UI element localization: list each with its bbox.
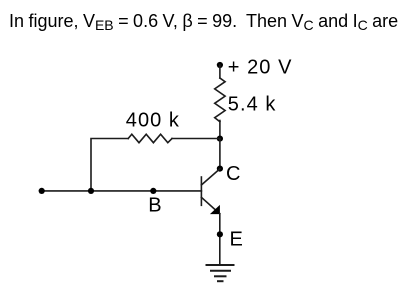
wire: emitter vertical	[219, 214, 221, 265]
node: collector junction (R1/R2/collector)	[217, 136, 223, 142]
resistor 400 k (horizontal zigzag)	[128, 134, 172, 143]
wire: collector vertical (junction to C node)	[219, 139, 221, 169]
wire: 5.4k bottom to collector junction	[219, 121, 221, 139]
node: base wire / 400k junction	[88, 188, 94, 194]
svg-text:C: C	[226, 163, 242, 185]
node: left open terminal	[39, 188, 45, 194]
wire: collector junction to 400k right end	[172, 138, 220, 140]
node E	[217, 231, 223, 237]
svg-text:+ 20 V: + 20 V	[228, 56, 293, 78]
node C	[217, 166, 223, 172]
transistor Q1	[201, 169, 220, 214]
wire: supply terminal to 5.4k top	[219, 65, 221, 78]
wire: 400k left end to corner and down to base wire	[91, 139, 128, 191]
node B	[150, 188, 156, 194]
resistor 5.4 k (vertical zigzag)	[215, 78, 225, 122]
node: +20 V supply terminal	[217, 62, 223, 68]
svg-text:400 k: 400 k	[126, 110, 180, 132]
ground	[207, 265, 234, 281]
wire: base horizontal	[42, 190, 202, 192]
question text	[9, 12, 398, 31]
svg-text:E: E	[230, 229, 244, 251]
svg-text:B: B	[148, 194, 162, 216]
svg-text:5.4 k: 5.4 k	[228, 94, 277, 116]
